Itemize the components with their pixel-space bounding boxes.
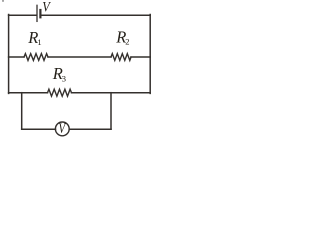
wire bottom rung left segment: [9, 92, 48, 94]
resistor R2: [111, 54, 131, 61]
battery V (cell) short plate: [39, 10, 41, 17]
wire top-right horizontal: [40, 14, 150, 16]
wire left vertical: [8, 15, 10, 94]
stray cropped mark top-left: [2, 0, 4, 2]
svg-text:1: 1: [37, 37, 41, 47]
wire voltmeter lead left: [22, 128, 56, 130]
svg-text:3: 3: [62, 73, 66, 83]
wire bottom rung right segment: [72, 92, 151, 94]
wire right vertical: [149, 15, 151, 94]
svg-text:2: 2: [125, 37, 129, 47]
wire voltmeter branch right vertical: [110, 93, 112, 130]
wire top-left horizontal: [9, 14, 37, 16]
wire voltmeter branch left vertical: [21, 93, 23, 130]
resistor R1: [24, 54, 48, 61]
wire voltmeter lead right: [69, 128, 111, 130]
wire middle rung right segment: [131, 56, 150, 58]
svg-text:V: V: [42, 0, 51, 16]
wire middle rung left segment: [9, 56, 24, 58]
battery V (cell) long plate: [36, 5, 38, 21]
wire middle rung center segment: [48, 56, 111, 58]
voltmeter M1 body: [55, 122, 69, 136]
resistor R3: [48, 89, 72, 96]
